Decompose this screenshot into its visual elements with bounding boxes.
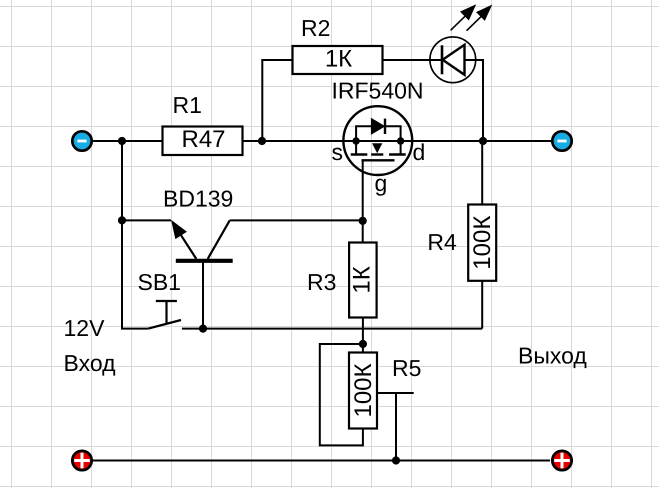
body diode xyxy=(356,126,371,141)
wire R4 top lead xyxy=(481,141,483,205)
svg-text:Вход: Вход xyxy=(64,350,117,376)
resistor R4 xyxy=(468,205,496,281)
label IRF540N xyxy=(332,78,424,104)
wire R4 bottom lead xyxy=(481,281,483,329)
junction dot mosfet source xyxy=(352,137,359,144)
svg-text:12V: 12V xyxy=(64,315,106,341)
terminal minus input xyxy=(72,131,91,150)
svg-text:R5: R5 xyxy=(392,355,421,381)
junction dot left rail xyxy=(118,137,126,145)
junction dot SB1 base xyxy=(199,325,207,333)
resistor R3 xyxy=(348,243,376,318)
label 12V xyxy=(64,315,106,341)
label Vyhod output xyxy=(518,343,587,369)
svg-text:g: g xyxy=(375,170,388,196)
resistor R1 xyxy=(163,126,243,155)
terminal plus output xyxy=(552,451,571,470)
label R2 xyxy=(301,15,330,41)
svg-text:1К: 1К xyxy=(325,46,352,73)
wire R5 wiper drop xyxy=(395,393,397,461)
junction dot mosfet drain xyxy=(397,137,404,144)
svg-text:R1: R1 xyxy=(173,92,202,118)
wire gate lead xyxy=(362,160,364,242)
potentiometer R5 xyxy=(349,353,377,429)
wire R2 riser xyxy=(262,60,292,141)
label R3 xyxy=(307,269,336,295)
svg-text:100К: 100К xyxy=(350,363,377,417)
junction dot wiper bottom xyxy=(392,456,400,464)
wire R2 to LED xyxy=(383,59,443,61)
junction dot gate node xyxy=(359,217,367,225)
label R5 xyxy=(392,355,421,381)
svg-text:100К: 100К xyxy=(469,216,496,270)
svg-text:Выход: Выход xyxy=(518,343,587,369)
svg-text:R4: R4 xyxy=(427,229,457,255)
svg-text:R47: R47 xyxy=(181,126,225,153)
label BD139 xyxy=(163,186,233,212)
svg-text:BD139: BD139 xyxy=(163,186,233,212)
terminal plus input xyxy=(72,451,91,470)
wire R5 shorting loop xyxy=(320,344,363,445)
label Vhod input xyxy=(64,350,117,376)
gate electrode xyxy=(362,159,395,161)
junction dot emitter branch xyxy=(118,216,126,224)
svg-text:IRF540N: IRF540N xyxy=(332,78,424,104)
svg-text:R3: R3 xyxy=(307,269,336,295)
transistor Q2 BD139 xyxy=(172,220,232,328)
svg-text:SB1: SB1 xyxy=(138,269,181,295)
wire left branch vertical xyxy=(122,141,148,329)
wire top rail left segment xyxy=(93,140,163,142)
wire LED to drain junction xyxy=(465,60,484,141)
label R4 xyxy=(427,229,457,255)
wire bottom rail xyxy=(93,460,550,462)
svg-text:1К: 1К xyxy=(348,266,375,293)
svg-text:s: s xyxy=(332,139,344,165)
wire top rail main xyxy=(243,140,553,142)
junction dot R1 right xyxy=(258,137,266,145)
LED D1 xyxy=(430,6,491,83)
MOSFET Q1 IRF540N xyxy=(332,106,426,196)
label R1 xyxy=(173,92,202,118)
svg-text:R2: R2 xyxy=(301,15,330,41)
wire collector to gate node xyxy=(230,219,363,221)
junction dot R5 top xyxy=(359,340,367,348)
junction dot drain column xyxy=(479,137,487,145)
label SB1 xyxy=(138,269,181,295)
terminal minus output xyxy=(552,131,571,150)
substrate arrow xyxy=(373,144,382,153)
wire emitter to branch xyxy=(122,219,171,221)
wire R3 bottom to R5 xyxy=(362,318,364,353)
resistor R2 xyxy=(293,46,383,74)
wire R5 wiper tap xyxy=(378,392,414,394)
wire mid rail xyxy=(182,328,482,330)
channel structure xyxy=(355,141,357,155)
pushbutton SB1 xyxy=(148,301,181,329)
svg-text:d: d xyxy=(413,139,426,165)
